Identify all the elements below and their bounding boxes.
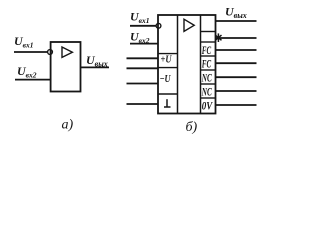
svg-text:FC: FC (201, 43, 211, 57)
svg-text:FC: FC (201, 56, 211, 70)
divider right column 5 (201, 83, 216, 85)
wire pin 0V (216, 104, 257, 106)
inversion circle on input 1 (diagram a) (48, 50, 53, 55)
vertical divider right (diagram b) (200, 15, 202, 114)
wire pin FC1 (216, 49, 257, 51)
svg-text:б): б) (186, 120, 198, 135)
wire input 2 (diagram a) (15, 79, 51, 81)
op-amp body DA1 (diagram a) (51, 42, 81, 92)
ground symbol in cell (166, 99, 168, 107)
amplifier triangle (diagram a) (62, 47, 72, 57)
wire pin +U supply (127, 57, 159, 59)
wire output (diagram a) (81, 66, 110, 68)
op-amp body DA (diagram b) (158, 15, 216, 114)
wire pin ground (127, 103, 159, 105)
svg-text:NC: NC (201, 84, 212, 98)
wire input 2 (diagram b) (130, 43, 158, 45)
vertical divider left (diagram b) (177, 15, 179, 114)
divider right column 4 (201, 69, 216, 71)
svg-text:−U: −U (160, 74, 172, 85)
wire pin frequency-correction (asterisk) (216, 37, 257, 39)
asterisk marker (215, 33, 221, 42)
wire pin (left, third) (127, 83, 159, 85)
inversion circle on input 1 (diagram b) (156, 23, 161, 28)
svg-text:0V: 0V (202, 98, 213, 112)
wire input 1 (diagram b) (130, 25, 156, 27)
amplifier triangle (diagram b) (184, 19, 194, 31)
svg-text:а): а) (62, 118, 74, 133)
wire pin NC2 (216, 90, 257, 92)
divider right column 1 (201, 31, 216, 33)
divider right column 3 (201, 55, 216, 57)
divider between +U and -U cells (158, 67, 178, 69)
wire pin -U supply (127, 67, 159, 69)
divider right column 6 (201, 97, 216, 99)
wire pin NC1 (216, 76, 257, 78)
wire input 1 (diagram a) (14, 51, 48, 53)
divider right column 2 (201, 41, 216, 43)
svg-text:+U: +U (161, 55, 173, 66)
divider above ground cell (158, 93, 178, 95)
svg-text:NC: NC (201, 70, 212, 84)
wire pin FC2 (216, 62, 257, 64)
wire output pin (diagram b) (216, 20, 257, 22)
divider above +U cell (158, 53, 178, 55)
